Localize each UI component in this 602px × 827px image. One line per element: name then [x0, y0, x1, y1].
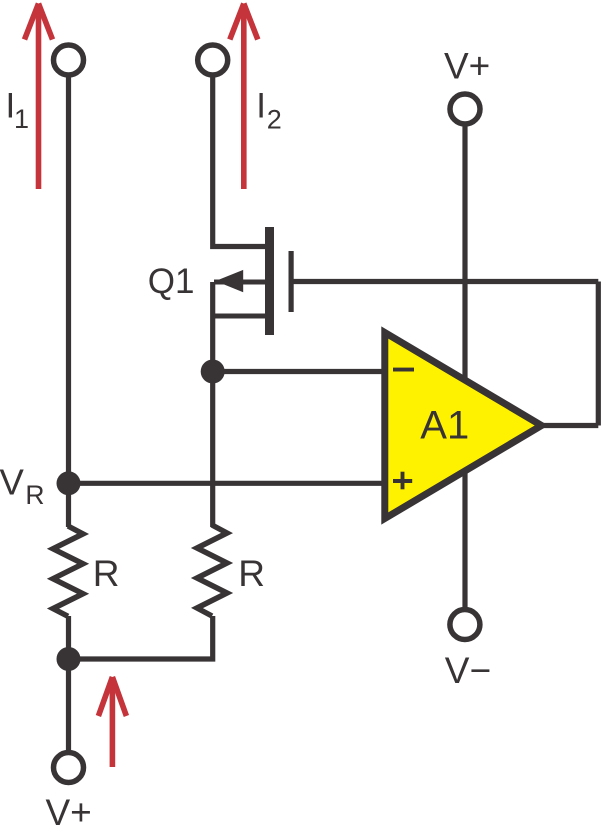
terminal T1 (I1 input, open circle)	[54, 45, 84, 75]
op-amp inverting input label (minus)	[393, 368, 414, 372]
wire: op-amp output to feedback	[538, 423, 598, 428]
node VR junction dot	[57, 471, 81, 495]
wire: R1 bottom to node B	[66, 616, 71, 659]
wire: feedback right edge vertical	[596, 282, 601, 426]
Q1 body arrowhead	[216, 270, 244, 292]
red current arrow I2	[230, 4, 258, 190]
svg-text:R: R	[93, 553, 120, 594]
wire: R2 bottom to node B	[69, 616, 213, 659]
svg-text:A1: A1	[420, 404, 469, 448]
wire: Q1 body/source down to node A	[210, 282, 215, 527]
wire: Q1 gate to feedback (top)	[294, 279, 599, 284]
svg-text:R: R	[238, 553, 265, 594]
wire: T2 down to Q1 drain contact	[213, 75, 265, 247]
node B junction dot	[57, 647, 81, 671]
svg-text:V+: V+	[46, 792, 92, 827]
wire: V+ supply down through op-amp to V- terminal	[462, 124, 467, 607]
Q1 source contact	[211, 314, 266, 319]
svg-text:1: 1	[14, 104, 29, 134]
terminal T2 (I2 input, open circle)	[198, 45, 228, 75]
wire: T1 down to resistor R1 top	[66, 75, 71, 527]
svg-text:V+: V+	[444, 45, 490, 86]
op-amp non-inverting input label (plus)	[393, 472, 412, 490]
red current arrow I1	[25, 4, 53, 190]
wire: node A to op-amp inverting input	[213, 369, 390, 374]
red current arrow (bottom return)	[98, 677, 126, 767]
svg-text:V: V	[0, 462, 25, 503]
resistor R1 (left) zigzag	[53, 526, 83, 616]
wire: node VR to op-amp non-inverting input	[69, 481, 391, 486]
svg-text:2: 2	[267, 105, 282, 135]
op-amp A1 triangle	[385, 333, 542, 519]
resistor R2 (right) zigzag	[197, 525, 227, 616]
Q1 gate bar	[289, 251, 294, 312]
wire: node B down to V+ terminal (bottom)	[66, 659, 71, 750]
svg-text:V−: V−	[445, 650, 491, 691]
terminal T3 (V+ supply, open circle)	[450, 94, 480, 124]
Q1 body line	[214, 280, 265, 285]
svg-text:Q1: Q1	[148, 262, 195, 301]
node A junction dot (inverting input node)	[201, 360, 225, 384]
transistor Q1 channel bar	[265, 227, 274, 335]
terminal T4 (V- supply, open circle)	[450, 610, 480, 640]
svg-text:R: R	[25, 480, 44, 510]
svg-text:I: I	[256, 87, 266, 126]
terminal T5 (V+ bottom, open circle)	[54, 753, 84, 783]
